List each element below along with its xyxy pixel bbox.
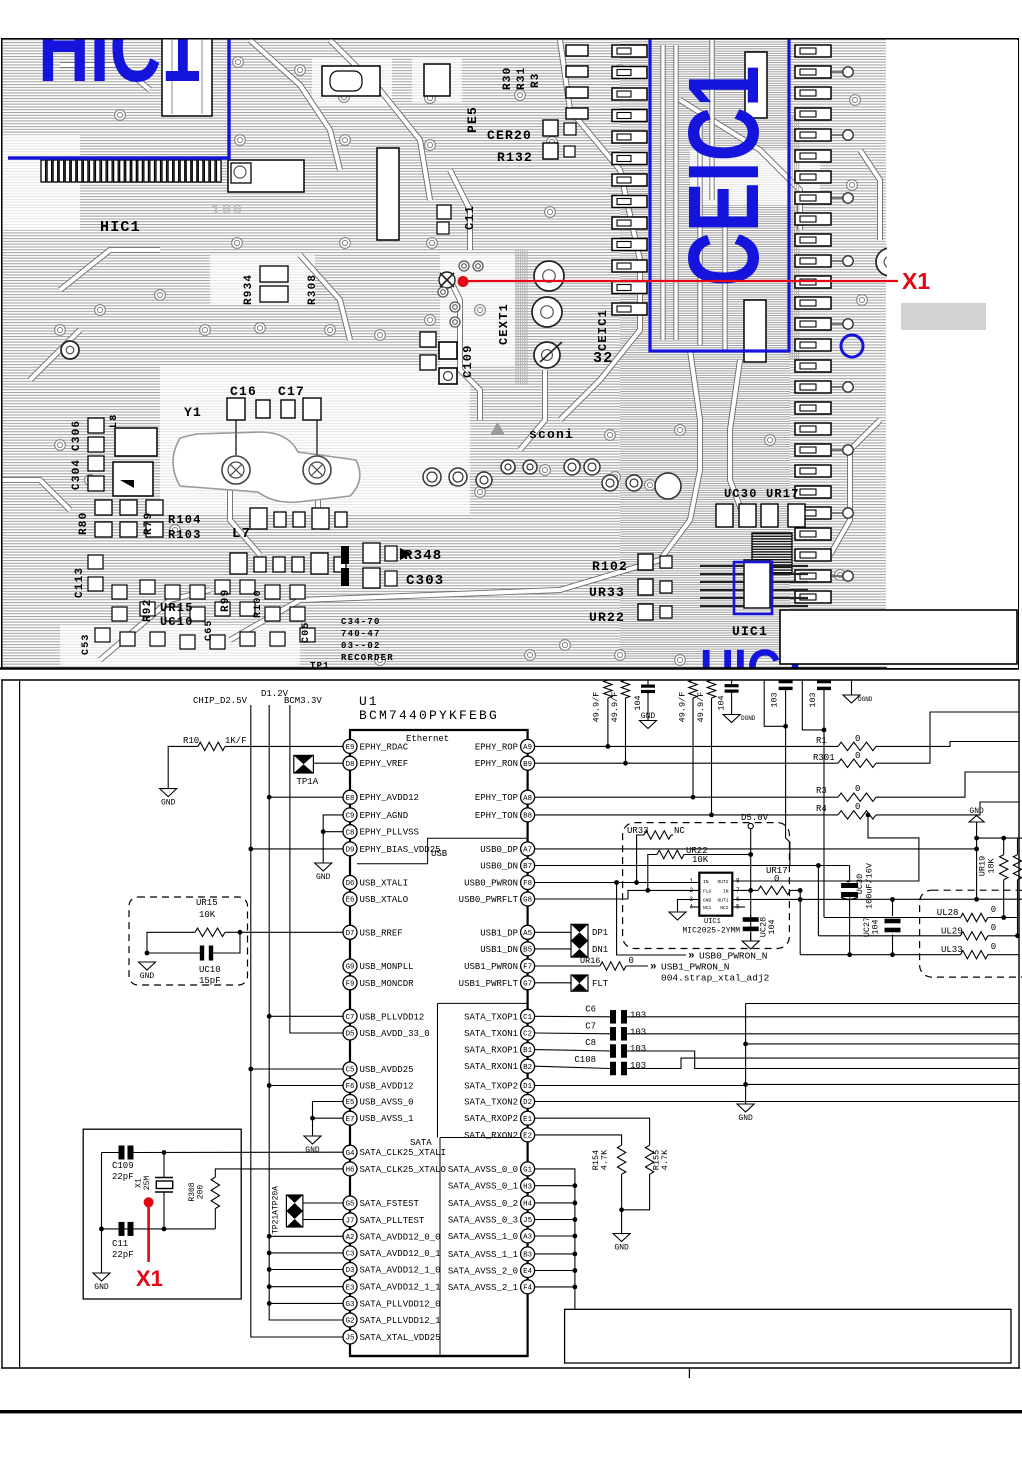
- C11 pads: [437, 205, 451, 219]
- svg-text:R100: R100: [253, 589, 264, 618]
- pin C1 SATA_TXOP1: [464, 1009, 535, 1023]
- svg-text:GND: GND: [316, 873, 331, 882]
- dashed box USB power switch: [623, 823, 790, 949]
- wire UL29: [818, 935, 960, 937]
- capacitor UC28: [750, 915, 752, 917]
- wire C9 C8 tie: [323, 815, 343, 863]
- resistor 49.9/F c: [689, 680, 697, 698]
- wire TP20A to J7: [303, 1219, 343, 1221]
- title block rectangle: [565, 1309, 1011, 1363]
- svg-text:B7: B7: [523, 863, 532, 871]
- svg-text:SATA_TXOP2: SATA_TXOP2: [464, 1082, 518, 1092]
- pin H4 SATA_AVSS_0_2: [448, 1196, 535, 1210]
- svg-text:IN: IN: [703, 879, 709, 885]
- svg-text:F4: F4: [523, 1285, 532, 1293]
- wire rail BCM3.3V: [290, 705, 343, 1033]
- svg-text:L7: L7: [232, 526, 251, 542]
- resistor R155: [645, 1145, 653, 1174]
- C16 C17 pads: [227, 398, 245, 420]
- crystal footprint Y1: [173, 432, 360, 502]
- capacitor C108: [610, 1062, 616, 1076]
- svg-text:R103: R103: [168, 528, 202, 542]
- pin C7 USB_PLLVDD12: [343, 1009, 424, 1023]
- svg-text:A8: A8: [523, 795, 532, 803]
- resistor R1: [838, 742, 876, 750]
- red probe line: [147, 1205, 150, 1262]
- resistor R154: [617, 1145, 625, 1174]
- wire C6 out: [627, 1016, 1019, 1018]
- pin C3 SATA_AVDD12_0_1: [343, 1246, 441, 1260]
- capacitor 104 b: [731, 680, 733, 686]
- svg-text:UR15: UR15: [196, 898, 218, 908]
- white keepout patches: [0, 135, 80, 230]
- wire C1 to C6: [535, 1015, 610, 1018]
- svg-text:EPHY_AVDD12: EPHY_AVDD12: [360, 793, 419, 803]
- pin J7 SATA_PLLTEST: [343, 1213, 425, 1227]
- svg-text:SATA_TXOP1: SATA_TXOP1: [464, 1012, 518, 1022]
- blue circle marker: [841, 335, 863, 357]
- svg-text:PE5: PE5: [465, 106, 480, 133]
- svg-text:Ethernet: Ethernet: [406, 734, 449, 744]
- blue box UIC1: [734, 562, 772, 614]
- svg-text:GND: GND: [94, 1283, 109, 1292]
- svg-text:R348: R348: [404, 548, 442, 564]
- svg-text:USB0_PWRON_N: USB0_PWRON_N: [699, 951, 767, 962]
- svg-text:TP21ATP20A: TP21ATP20A: [272, 1186, 281, 1234]
- ground: [146, 961, 148, 964]
- frame tick: [688, 1368, 690, 1378]
- svg-text:C2: C2: [523, 1031, 532, 1039]
- svg-text:U1: U1: [359, 694, 379, 709]
- pin E9 EPHY_RDAC: [343, 739, 409, 753]
- svg-text:D3: D3: [346, 1267, 355, 1275]
- svg-text:OUT1: OUT1: [717, 898, 728, 904]
- resistor R301: [838, 759, 876, 767]
- svg-text:0: 0: [855, 734, 860, 744]
- svg-text:EPHY_TOP: EPHY_TOP: [475, 793, 518, 803]
- resistor R10: [198, 742, 225, 750]
- svg-text:49.9/F: 49.9/F: [592, 692, 602, 723]
- svg-text:DP1: DP1: [592, 928, 608, 938]
- svg-text:E7: E7: [346, 1116, 355, 1124]
- test point DN1: [571, 941, 588, 957]
- pin A8 EPHY_TOP: [475, 790, 535, 804]
- svg-text:Y1: Y1: [184, 405, 202, 420]
- crystal X1: [155, 1177, 173, 1179]
- wire UIC1 pin8 out: [732, 815, 919, 881]
- wire crystal stem top: [163, 1153, 165, 1178]
- pin B7 USB0_DN: [480, 859, 534, 873]
- svg-text:G1: G1: [523, 1167, 532, 1175]
- svg-text:D9: D9: [346, 847, 355, 855]
- hatched component UIC1: [752, 533, 792, 573]
- svg-text:D1: D1: [523, 1083, 532, 1091]
- svg-text:EPHY_AGND: EPHY_AGND: [360, 811, 409, 821]
- wire rail to E8: [269, 796, 343, 798]
- svg-text:UL33: UL33: [941, 945, 963, 955]
- svg-text:TP1A: TP1A: [297, 777, 319, 787]
- wire rail CHIP_D2.5V: [251, 705, 343, 1337]
- pin B5 USB1_DN: [480, 942, 534, 956]
- wire UR22 left: [648, 855, 657, 891]
- svg-text:R79: R79: [143, 512, 155, 535]
- pin F8 USB0_PWRON: [464, 876, 535, 890]
- svg-text:104: 104: [871, 919, 881, 934]
- pin B8 EPHY_TON: [475, 808, 535, 822]
- svg-text:BCM7440PYKFEBG: BCM7440PYKFEBG: [359, 708, 499, 723]
- ground: [750, 940, 752, 943]
- svg-text:103: 103: [770, 692, 780, 707]
- pin E8 EPHY_AVDD12: [343, 790, 419, 804]
- svg-text:SATA_RXON1: SATA_RXON1: [464, 1062, 518, 1072]
- test point TP1A: [294, 755, 314, 773]
- dashed box UL resistors: [920, 890, 1022, 977]
- svg-text:DGND: DGND: [858, 696, 873, 703]
- pcb vias: [233, 57, 244, 68]
- wire R10 to E9: [225, 745, 343, 747]
- left column pads C304 C306: [88, 418, 104, 433]
- wire D1 to gnd net: [535, 1085, 746, 1087]
- svg-text:C303: C303: [406, 573, 444, 589]
- svg-text:32: 32: [593, 350, 613, 367]
- svg-text:H6: H6: [346, 1167, 355, 1175]
- wire rail D1.2V: [269, 705, 343, 1320]
- pin G7 USB1_PWRFLT: [459, 976, 535, 990]
- wire R301 out: [876, 712, 1019, 763]
- svg-text:100: 100: [211, 202, 244, 219]
- svg-text:IN: IN: [723, 888, 729, 894]
- capacitor 104 a: [647, 680, 649, 686]
- svg-text:H4: H4: [523, 1201, 532, 1209]
- svg-text:C11: C11: [112, 1239, 128, 1249]
- svg-text:SATA_AVDD12_1_1: SATA_AVDD12_1_1: [360, 1283, 441, 1293]
- svg-text:D5.0V: D5.0V: [741, 813, 769, 823]
- pcb traces: [560, 40, 640, 420]
- svg-text:A3: A3: [523, 1234, 532, 1242]
- IC UIC1 body: [699, 873, 732, 916]
- resistor UR15: [195, 928, 225, 936]
- red callout line X1: [462, 280, 898, 282]
- ground: [731, 713, 733, 716]
- svg-text:4.7K: 4.7K: [600, 1149, 610, 1170]
- ground: [647, 719, 649, 722]
- wire crystal left rail: [101, 1153, 103, 1274]
- component rects top: [162, 38, 212, 116]
- resistor UL28: [961, 913, 988, 921]
- pin A3 SATA_AVSS_1_0: [448, 1229, 535, 1243]
- svg-text:SATA_AVSS_0_3: SATA_AVSS_0_3: [448, 1216, 518, 1226]
- R80 R79 pads: [95, 500, 112, 515]
- svg-text:UR33: UR33: [589, 585, 625, 600]
- resistor R308: [211, 1177, 219, 1209]
- svg-text:GND: GND: [614, 1244, 629, 1253]
- capacitor UC10: [200, 946, 204, 961]
- capacitor C11: [119, 1222, 125, 1236]
- ground: [745, 1103, 747, 1106]
- hatch patch panels: [620, 40, 790, 660]
- svg-text:CEIC1: CEIC1: [596, 309, 610, 351]
- svg-text:NC: NC: [674, 826, 685, 836]
- pin B9 EPHY_RON: [475, 756, 535, 770]
- svg-text:UIC1: UIC1: [732, 624, 768, 639]
- svg-text:R31: R31: [516, 67, 528, 90]
- wire C7 out: [627, 1033, 1019, 1035]
- svg-text:R80: R80: [78, 512, 90, 535]
- pcb outline border: [2, 39, 1019, 670]
- PCB copper hatch background: [1, 38, 886, 669]
- svg-text:C7: C7: [346, 1014, 355, 1022]
- svg-text:SATA_TXON1: SATA_TXON1: [464, 1029, 518, 1039]
- trace bundle vertical: [515, 250, 517, 385]
- svg-text:100uF/16V: 100uF/16V: [865, 862, 875, 909]
- wires SATA_AVDD rail taps: [269, 1235, 343, 1237]
- svg-text:EPHY_VREF: EPHY_VREF: [360, 759, 409, 769]
- svg-text:SATA_RXOP2: SATA_RXOP2: [464, 1114, 518, 1124]
- wire R308 bottom: [214, 1209, 216, 1229]
- IC SATA divider right: [437, 1003, 439, 1137]
- pin F9 USB_MONCDR: [343, 976, 414, 990]
- svg-text:49.9/F: 49.9/F: [678, 692, 688, 723]
- pin E7 USB_AVSS_1: [343, 1111, 414, 1125]
- svg-text:B1: B1: [523, 1047, 532, 1055]
- R934 pads: [260, 266, 288, 282]
- svg-text:F7: F7: [523, 964, 532, 972]
- svg-text:E4: E4: [523, 1268, 532, 1276]
- svg-text:C34-70: C34-70: [341, 617, 381, 627]
- svg-text:FLG: FLG: [703, 888, 712, 894]
- blue component box HIC1: [8, 30, 229, 158]
- pin D2 SATA_TXON2: [464, 1095, 535, 1109]
- ground: [167, 787, 169, 790]
- svg-text:B5: B5: [523, 947, 532, 955]
- connector CEIC1 right pad column: [795, 45, 831, 57]
- svg-text:0: 0: [855, 802, 860, 812]
- svg-text:G9: G9: [346, 964, 355, 972]
- pin G9 USB_MONPLL: [343, 959, 414, 973]
- pin D7 USB_RREF: [343, 925, 403, 939]
- svg-text:E2: E2: [523, 1133, 532, 1141]
- svg-text:USB_PLLVDD12: USB_PLLVDD12: [360, 1012, 425, 1022]
- capacitor C6: [610, 1010, 616, 1024]
- svg-text:004.strap_xtal_adj2: 004.strap_xtal_adj2: [661, 973, 770, 984]
- PCB layout view (top): [0, 0, 1018, 699]
- triangle marker: [490, 422, 505, 435]
- svg-text:R934: R934: [243, 274, 255, 305]
- pin C8 EPHY_PLLVSS: [343, 825, 419, 839]
- svg-text:EPHY_BIAS_VDD25: EPHY_BIAS_VDD25: [360, 845, 441, 855]
- svg-text:B9: B9: [523, 761, 532, 769]
- svg-text:SATA_XTAL_VDD25: SATA_XTAL_VDD25: [360, 1333, 441, 1343]
- svg-text:UR15: UR15: [160, 601, 194, 615]
- wire crystal bottom rail: [102, 1228, 216, 1230]
- pin E5 USB_AVSS_0: [343, 1095, 414, 1109]
- svg-text:0: 0: [629, 956, 634, 966]
- wire crystal top: [102, 1152, 121, 1154]
- wire avss b: [746, 1083, 1019, 1085]
- svg-text:R10: R10: [183, 736, 199, 746]
- ground: [851, 680, 853, 695]
- svg-text:UR22: UR22: [589, 610, 625, 625]
- svg-text:4.7K: 4.7K: [660, 1149, 670, 1170]
- svg-text:25M: 25M: [143, 1176, 152, 1191]
- pin D9 EPHY_BIAS_VDD25: [343, 842, 441, 856]
- svg-text:HIC1: HIC1: [100, 219, 141, 236]
- svg-text:R301: R301: [813, 753, 835, 763]
- svg-text:E5: E5: [346, 1099, 355, 1107]
- wire TP21A to G5: [303, 1202, 343, 1204]
- wire G8: [535, 898, 628, 900]
- pads row 2: [230, 553, 247, 574]
- wire UR15 left: [147, 932, 195, 953]
- svg-text:X1: X1: [136, 1266, 163, 1291]
- svg-text:G8: G8: [523, 897, 532, 905]
- svg-text:15pF: 15pF: [199, 976, 221, 986]
- wire rail to D9: [251, 848, 343, 850]
- svg-text:C3: C3: [346, 1251, 355, 1259]
- svg-text:C8: C8: [346, 829, 355, 837]
- wire G7 stub: [535, 982, 571, 984]
- via marker at X1: [439, 272, 455, 288]
- wire A8 to R3: [535, 796, 838, 798]
- pads near C109: [420, 332, 436, 347]
- pin D3 SATA_AVDD12_1_0: [343, 1263, 441, 1277]
- wire cap left: [147, 952, 202, 954]
- big via sconi: [655, 473, 681, 499]
- L8 inductor: [115, 428, 157, 456]
- L7 pads row: [250, 508, 267, 529]
- wire UIC1 pin7: [732, 889, 758, 891]
- svg-text:200: 200: [197, 1185, 206, 1200]
- wire out collector: [799, 890, 801, 954]
- svg-text:F6: F6: [346, 1083, 355, 1091]
- svg-text:USB_AVDD12: USB_AVDD12: [360, 1082, 414, 1092]
- svg-text:UL28: UL28: [937, 908, 959, 918]
- R132 pads: [543, 143, 558, 159]
- wire 103b net: [802, 680, 824, 730]
- lower-left pads grid: [88, 555, 103, 569]
- small chip body: [744, 560, 770, 608]
- svg-text:J5: J5: [346, 1335, 355, 1343]
- svg-text:R104: R104: [168, 513, 202, 527]
- wire TP1A to D8: [313, 762, 343, 764]
- pin A7 USB0_DP: [480, 842, 534, 856]
- vias near X1: [459, 261, 469, 271]
- svg-text:SATA_PLLVDD12_0: SATA_PLLVDD12_0: [360, 1299, 441, 1309]
- svg-text:1K/F: 1K/F: [225, 736, 247, 746]
- capacitor 103 a: [779, 680, 793, 683]
- svg-text:49.9/F: 49.9/F: [610, 692, 620, 723]
- resistor UL33: [961, 951, 988, 959]
- wire UIC1 pin3 gnd: [678, 900, 700, 913]
- svg-text:EPHY_RDAC: EPHY_RDAC: [360, 742, 409, 752]
- svg-text:CEIC1: CEIC1: [668, 66, 780, 287]
- svg-text:R132: R132: [497, 150, 533, 165]
- svg-text:0: 0: [855, 784, 860, 794]
- svg-text:UL29: UL29: [941, 927, 963, 937]
- svg-text:SATA_CLK25_XTALO: SATA_CLK25_XTALO: [360, 1165, 446, 1175]
- gray rectangle: [901, 303, 986, 330]
- IC U1 bottom edge: [350, 1355, 528, 1357]
- svg-text:G3: G3: [346, 1301, 355, 1309]
- small pads column: [566, 45, 588, 56]
- pin E2 SATA_RXON2: [464, 1128, 535, 1142]
- capacitor 103 b: [817, 680, 831, 683]
- svg-text:D2: D2: [523, 1099, 532, 1107]
- pin G3 SATA_PLLVDD12_0: [343, 1296, 441, 1310]
- svg-text:UC30: UC30: [855, 874, 865, 894]
- thick bottom rule: [0, 1410, 1022, 1413]
- pin G1 SATA_AVSS_0_0: [448, 1162, 535, 1176]
- svg-text:E1: E1: [523, 1116, 532, 1124]
- wire D5.0V down: [750, 829, 752, 941]
- svg-text:10K: 10K: [692, 855, 709, 865]
- red probe dot X1: [144, 1197, 154, 1207]
- CER20 resistor pads: [543, 120, 558, 136]
- wire A5 stub: [535, 931, 571, 933]
- svg-text:UC30 UR17: UC30 UR17: [724, 487, 800, 501]
- svg-text:J5: J5: [523, 1217, 532, 1225]
- svg-text:USB_AVDD_33_0: USB_AVDD_33_0: [360, 1029, 430, 1039]
- op-amp U1 body BCM7440PYKFEBG: [350, 730, 528, 1356]
- wire UR33: [637, 835, 644, 883]
- pin D1 SATA_TXOP2: [464, 1079, 535, 1093]
- wire UL28: [824, 917, 961, 919]
- pin C5 USB_AVDD25: [343, 1062, 414, 1076]
- pin C9 EPHY_AGND: [343, 808, 408, 822]
- svg-text:USB_MONCDR: USB_MONCDR: [360, 979, 415, 989]
- svg-text:SATA_PLLVDD12_1: SATA_PLLVDD12_1: [360, 1316, 441, 1326]
- svg-text:SATA_AVSS_2_0: SATA_AVSS_2_0: [448, 1267, 518, 1277]
- pin E3 SATA_AVDD12_1_1: [343, 1280, 441, 1294]
- svg-text:RECORDER: RECORDER: [341, 653, 394, 663]
- pin C2 SATA_TXON1: [464, 1026, 535, 1040]
- svg-text:EPHY_RON: EPHY_RON: [475, 759, 518, 769]
- C109 pad squares: [439, 342, 457, 359]
- pin E4 SATA_AVSS_2_0: [448, 1264, 535, 1278]
- IC USB section divider: [357, 838, 528, 864]
- svg-text:B3: B3: [523, 1252, 532, 1260]
- large vias: [534, 261, 564, 291]
- wire R308 top: [215, 1169, 343, 1177]
- resistor UR33: [644, 831, 671, 839]
- svg-text:SATA_RXOP1: SATA_RXOP1: [464, 1046, 518, 1056]
- pin A5 USB1_DP: [480, 925, 534, 939]
- R348 C303 pads: [363, 543, 380, 563]
- svg-text:UIC1: UIC1: [704, 918, 721, 926]
- wire A9 to R1: [535, 745, 838, 747]
- wire UR19 top rail: [977, 837, 1022, 839]
- svg-text:C113: C113: [74, 567, 86, 598]
- svg-text:»: »: [650, 962, 657, 974]
- schematic sheet frame: [1, 679, 1020, 681]
- svg-text:USB_AVDD25: USB_AVDD25: [360, 1065, 414, 1075]
- svg-text:104: 104: [633, 695, 643, 710]
- svg-text:C16: C16: [230, 384, 257, 399]
- pin H3 SATA_AVSS_0_1: [448, 1179, 535, 1193]
- svg-text:SATA_TXON2: SATA_TXON2: [464, 1098, 518, 1108]
- pin D6 USB_XTALI: [343, 876, 408, 890]
- svg-text:103: 103: [630, 1061, 646, 1071]
- svg-text:F9: F9: [346, 980, 355, 988]
- svg-text:C05: C05: [301, 621, 312, 643]
- ground: [677, 911, 679, 914]
- wire UIC1 pin2: [628, 890, 699, 899]
- svg-text:R308: R308: [307, 274, 319, 305]
- R102 UR33 UR22 pads: [638, 554, 653, 570]
- pin J5 SATA_XTAL_VDD25: [343, 1330, 441, 1344]
- wire rail to C7: [269, 1015, 343, 1017]
- wire UR15 to D7: [225, 931, 343, 933]
